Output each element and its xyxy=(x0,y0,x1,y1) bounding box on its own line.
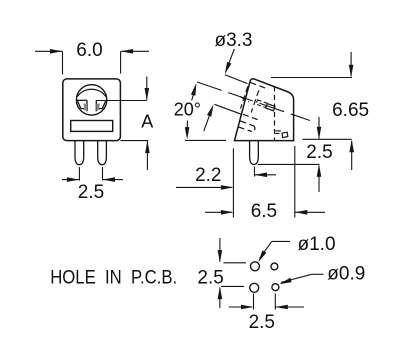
angle arrow lower xyxy=(185,121,190,140)
svg-text:ø0.9: ø0.9 xyxy=(327,264,365,285)
hole top-right dia 0.9 xyxy=(271,263,278,270)
svg-text:HOLE IN P.C.B.: HOLE IN P.C.B. xyxy=(50,267,177,288)
dimension 2.2 xyxy=(176,148,276,217)
standoff bump (solid) xyxy=(282,132,288,137)
svg-text:20°: 20° xyxy=(174,100,201,120)
hole bottom-right dia 0.9 xyxy=(272,284,279,291)
dimension 6.5 overall width xyxy=(205,146,325,222)
side view LED axis centerline xyxy=(197,82,310,121)
lens face extension line xyxy=(225,75,248,84)
svg-text:2.5: 2.5 xyxy=(78,182,104,203)
svg-text:2.5: 2.5 xyxy=(306,142,332,163)
front view holder body outline xyxy=(63,79,121,141)
dimension 2.5 lead spacing xyxy=(62,167,123,203)
angle baseline xyxy=(185,139,226,141)
dimension 2.5 hole column spacing xyxy=(229,294,304,334)
svg-text:ø3.3: ø3.3 xyxy=(214,30,252,51)
dimension A top arrow xyxy=(145,77,150,101)
angle 20 deg label xyxy=(174,100,201,120)
svg-text:A: A xyxy=(141,112,153,132)
front view LED lens circle xyxy=(76,85,106,115)
hidden standoff dashes xyxy=(275,131,281,134)
side view lead xyxy=(250,141,259,165)
diameter 3.3 leader xyxy=(225,49,235,74)
svg-text:2.2: 2.2 xyxy=(195,165,221,186)
front view right lead xyxy=(98,141,107,165)
dimension 6.65 height xyxy=(271,52,369,170)
dimension 6.0 width xyxy=(35,40,149,74)
svg-text:6.65: 6.65 xyxy=(332,100,369,121)
front view right contact tab xyxy=(96,100,105,111)
hole bottom-left dia 1.0 xyxy=(250,283,259,292)
dimension A bottom reference xyxy=(120,141,149,170)
dimension 2.5 hole row spacing xyxy=(197,238,246,308)
front view lens inner arc xyxy=(77,89,106,96)
diameter 0.9 label and leader xyxy=(279,264,365,285)
front view left lead xyxy=(75,141,84,165)
front view left contact tab xyxy=(76,100,87,111)
dimension 2.5 lead length xyxy=(258,117,333,192)
hidden lead slot (dashed) xyxy=(239,121,255,132)
angle arrow middle xyxy=(204,104,214,131)
dimension A leader from lens center xyxy=(96,100,147,102)
lens tip small rect (solid) xyxy=(266,104,275,111)
hidden LED can bottom edge (dashed) xyxy=(243,114,260,120)
hidden LED flange right side (dashed) xyxy=(251,90,259,112)
svg-text:2.5: 2.5 xyxy=(249,312,275,333)
hidden flange cross dash xyxy=(240,97,249,102)
svg-text:ø1.0: ø1.0 xyxy=(298,234,336,255)
caption HOLE IN P.C.B. xyxy=(50,267,177,288)
diameter 3.3 label xyxy=(214,30,252,51)
diameter 1.0 label and leader xyxy=(258,234,335,262)
lens face lower extension line xyxy=(215,104,242,114)
hidden LED lens top edge (dashed) xyxy=(251,83,269,90)
hidden lens seat small rect (dashed) xyxy=(256,100,267,108)
side view holder body outline xyxy=(235,79,294,141)
dimension A label xyxy=(141,112,153,132)
hidden lead hole vertical line (dashed) xyxy=(274,87,276,141)
svg-text:2.5: 2.5 xyxy=(197,268,223,289)
svg-text:6.0: 6.0 xyxy=(76,40,102,61)
front view slot window xyxy=(71,121,113,132)
svg-text:6.5: 6.5 xyxy=(251,201,277,222)
angle arrow upper xyxy=(191,83,197,101)
hole top-left dia 1.0 xyxy=(250,262,259,271)
hidden LED flange left side (dashed) xyxy=(241,86,248,108)
